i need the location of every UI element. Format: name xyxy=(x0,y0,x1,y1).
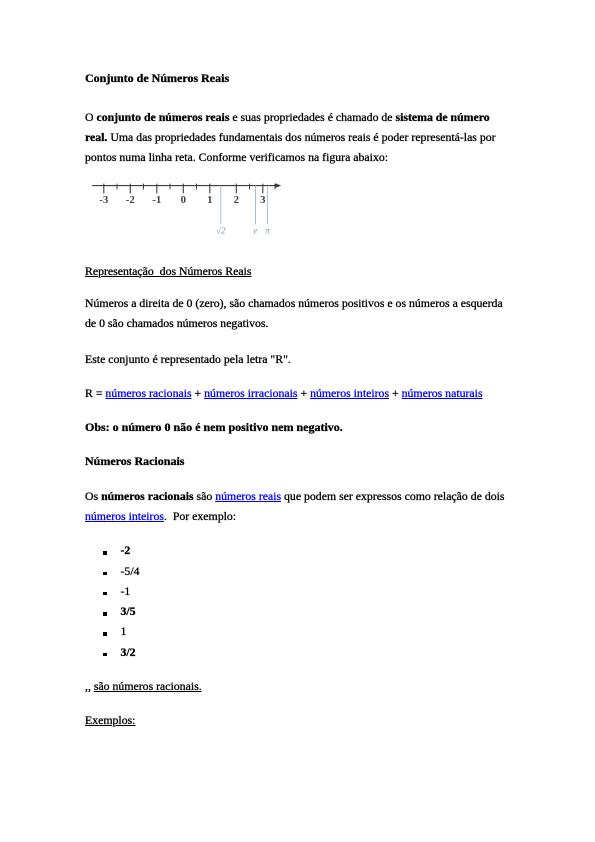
paragraph 8 xyxy=(85,710,135,730)
svg-text:1: 1 xyxy=(207,194,212,206)
figure: number line xyxy=(85,176,297,240)
svg-text:√2: √2 xyxy=(216,226,226,236)
short ticks xyxy=(117,184,275,190)
subheading xyxy=(85,261,251,281)
paragraph 2 xyxy=(85,293,503,333)
svg-text:-2: -2 xyxy=(126,194,135,206)
paragraph 5: Obs xyxy=(85,417,343,437)
svg-text:π: π xyxy=(265,226,270,236)
irrational marker lines xyxy=(221,186,268,225)
svg-text:2: 2 xyxy=(234,194,239,206)
paragraph 7 xyxy=(85,676,202,696)
heading: Números Racionais xyxy=(85,451,184,471)
paragraph 6 xyxy=(85,486,505,526)
bullet list xyxy=(121,540,131,560)
svg-text:-1: -1 xyxy=(152,194,161,206)
irrational labels xyxy=(216,226,270,236)
svg-text:e: e xyxy=(254,226,258,236)
svg-text:-3: -3 xyxy=(99,194,109,206)
arrowhead xyxy=(275,183,281,188)
paragraph 1 xyxy=(85,107,496,167)
axis line xyxy=(92,185,276,187)
number labels xyxy=(99,194,266,206)
title: Conjunto de Números Reais xyxy=(85,68,229,88)
long ticks xyxy=(104,184,263,194)
paragraph 4: R = links xyxy=(85,383,483,403)
svg-text:3: 3 xyxy=(260,194,266,206)
paragraph 3 xyxy=(85,349,291,369)
svg-text:0: 0 xyxy=(181,194,186,206)
